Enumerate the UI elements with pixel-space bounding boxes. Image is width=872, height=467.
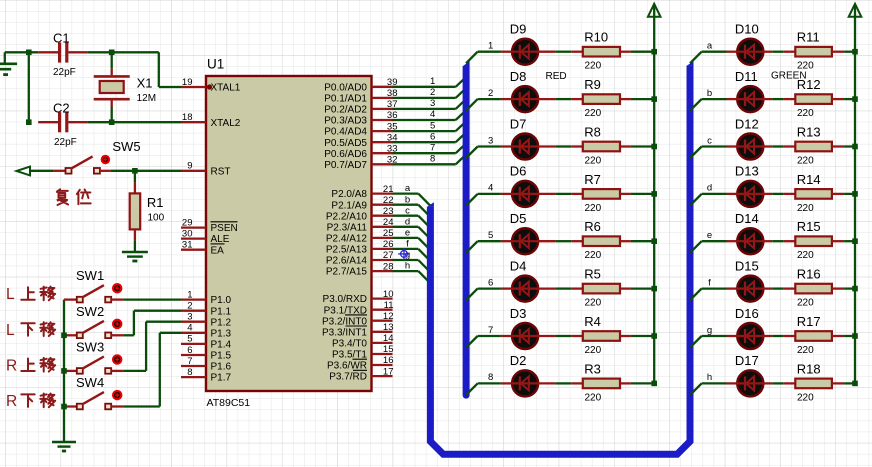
U1 pin stub 8 <box>181 376 206 378</box>
svg-text:3: 3 <box>430 98 435 109</box>
svg-text:D3: D3 <box>510 306 527 321</box>
wire C2 to XTAL2 pin <box>88 121 181 123</box>
svg-text:a: a <box>707 41 713 52</box>
svg-text:1: 1 <box>430 76 435 87</box>
svg-text:220: 220 <box>585 108 602 119</box>
wire P0.6 to bus <box>393 152 456 154</box>
power terminal VCC (green column) <box>849 4 862 17</box>
bus exit net 1 <box>466 52 478 64</box>
wire net 3 to LED <box>478 145 501 147</box>
svg-text:12M: 12M <box>137 93 156 104</box>
svg-text:h: h <box>405 261 410 272</box>
svg-text:e: e <box>405 228 410 239</box>
wire LED to resistor <box>772 51 783 53</box>
svg-text:R17: R17 <box>797 314 821 329</box>
svg-text:P0.4/AD4: P0.4/AD4 <box>324 127 367 138</box>
svg-text:5: 5 <box>187 334 192 345</box>
D5 cathode stub <box>501 240 512 242</box>
junction <box>651 144 657 150</box>
svg-text:220: 220 <box>585 298 602 309</box>
svg-text:220: 220 <box>585 392 602 403</box>
svg-text:R3: R3 <box>584 361 601 376</box>
bus entry P2.5 <box>418 249 430 261</box>
bus entry P2.4 <box>418 238 430 250</box>
svg-text:5: 5 <box>488 230 493 241</box>
bus exit net b <box>690 99 702 111</box>
R11 right stub <box>832 51 844 53</box>
svg-text:P2.1/A9: P2.1/A9 <box>331 200 367 211</box>
D3 cathode stub <box>501 335 512 337</box>
svg-text:D14: D14 <box>735 211 759 226</box>
bus entry P0.1 <box>456 88 466 98</box>
svg-text:P1.0: P1.0 <box>211 295 232 306</box>
ground (below R1) <box>122 251 148 253</box>
wire LED to resistor <box>772 98 783 100</box>
LED D15 <box>737 276 763 302</box>
RD overline <box>353 369 367 371</box>
D13 cathode stub <box>727 193 739 195</box>
junction <box>852 238 858 244</box>
wire crystal bottom <box>111 107 113 122</box>
D10 cathode stub <box>727 51 739 53</box>
D4 cathode stub <box>501 287 512 289</box>
svg-text:220: 220 <box>585 203 602 214</box>
svg-text:h: h <box>707 372 712 383</box>
resistor R9 <box>583 94 620 104</box>
svg-text:P3.7/RD: P3.7/RD <box>329 372 367 383</box>
wire P2.4 to bus <box>393 237 419 239</box>
wire LED to resistor <box>556 51 572 53</box>
LED D12 <box>737 134 763 160</box>
wire net f to LED <box>702 287 727 289</box>
U1 pin stub 5 <box>181 343 206 345</box>
D16 cathode stub <box>727 335 739 337</box>
svg-text:11: 11 <box>384 300 394 311</box>
wire LED to resistor <box>556 98 572 100</box>
wire net a to LED <box>702 51 727 53</box>
svg-text:R: R <box>6 357 17 374</box>
svg-text:7: 7 <box>187 356 192 367</box>
capacitor C2 <box>38 121 58 123</box>
wire resistor to VCC rail <box>844 145 855 147</box>
power terminal VCC (red column) <box>648 4 661 17</box>
bus exit net g <box>690 336 702 348</box>
R6 right stub <box>620 240 631 242</box>
svg-text:D10: D10 <box>735 22 759 37</box>
svg-text:L: L <box>6 322 15 339</box>
svg-text:30: 30 <box>182 228 193 239</box>
wire resistor to VCC rail <box>631 382 654 384</box>
LED D11 <box>737 86 763 112</box>
bus exit net a <box>690 52 702 64</box>
svg-text:g: g <box>707 325 712 336</box>
svg-text:27: 27 <box>383 250 394 261</box>
wire left rail down <box>28 52 30 122</box>
wire resistor to VCC rail <box>844 287 855 289</box>
svg-text:c: c <box>405 205 410 216</box>
svg-text:P1.3: P1.3 <box>211 328 232 339</box>
R7 left stub <box>571 193 583 195</box>
R10 left stub <box>571 51 583 53</box>
svg-text:18: 18 <box>182 112 193 123</box>
D4 anode stub <box>538 287 555 289</box>
R13 left stub <box>783 145 795 147</box>
svg-text:SW1: SW1 <box>76 268 104 283</box>
wire LED to resistor <box>772 382 783 384</box>
R14 left stub <box>783 193 795 195</box>
svg-text:XTAL2: XTAL2 <box>211 118 241 129</box>
wire P2.0 to bus <box>393 192 419 194</box>
svg-text:D7: D7 <box>510 116 527 131</box>
junction <box>651 333 657 339</box>
wire to XTAL1 pin <box>159 86 181 88</box>
svg-text:PSEN: PSEN <box>211 223 238 234</box>
R4 right stub <box>620 335 631 337</box>
INT1 overline <box>346 325 368 327</box>
wire P0.4 to bus <box>393 130 456 132</box>
svg-text:D13: D13 <box>735 164 759 179</box>
wire C1 to XTAL1 corner <box>88 51 159 53</box>
R8 right stub <box>620 145 631 147</box>
svg-text:GREEN: GREEN <box>771 71 807 82</box>
svg-text:220: 220 <box>585 250 602 261</box>
capacitor C1 <box>38 51 58 53</box>
svg-text:SW3: SW3 <box>76 339 104 354</box>
svg-text:24: 24 <box>383 217 394 228</box>
resistor R3 <box>583 379 620 389</box>
bus P0 (vertical, red LED column) <box>463 61 470 398</box>
wire net g to LED <box>702 335 727 337</box>
svg-text:100: 100 <box>148 213 165 224</box>
svg-text:D9: D9 <box>510 22 527 37</box>
switch SW5 <box>53 170 66 172</box>
U1 pin stub 13 <box>372 331 393 333</box>
svg-text:P0.2/AD2: P0.2/AD2 <box>324 105 367 116</box>
D12 cathode stub <box>727 145 739 147</box>
bus exit net 2 <box>466 99 478 111</box>
D16 anode stub <box>764 335 773 337</box>
svg-text:29: 29 <box>182 217 193 228</box>
svg-text:U1: U1 <box>207 57 224 72</box>
svg-text:RST: RST <box>211 166 231 177</box>
wire SW3 to P1.2 <box>124 370 147 372</box>
svg-text:R: R <box>6 393 17 410</box>
svg-text:2: 2 <box>430 87 435 98</box>
VCC rail (green column) <box>854 5 856 383</box>
svg-text:R14: R14 <box>797 172 821 187</box>
resistor R4 <box>583 331 620 341</box>
junction <box>651 49 657 55</box>
svg-text:4: 4 <box>488 183 493 194</box>
wire XTAL1 vertical <box>158 52 160 87</box>
wire P2.7 to bus <box>393 270 419 272</box>
svg-text:14: 14 <box>383 333 394 344</box>
svg-text:R1: R1 <box>147 195 164 210</box>
resistor R1 <box>134 182 136 193</box>
bus exit net 5 <box>466 241 478 253</box>
svg-text:7: 7 <box>430 142 435 153</box>
bus entry P0.6 <box>456 144 466 154</box>
svg-text:7: 7 <box>488 325 493 336</box>
wire P2.2 to bus <box>393 215 419 217</box>
svg-text:8: 8 <box>488 372 493 383</box>
R9 left stub <box>571 98 583 100</box>
svg-text:R7: R7 <box>584 172 601 187</box>
bus exit net 7 <box>466 336 478 348</box>
wire net c to LED <box>702 145 727 147</box>
label 复位 <box>57 189 68 205</box>
svg-text:d: d <box>707 183 712 194</box>
svg-text:P3.4/T0: P3.4/T0 <box>332 339 367 350</box>
svg-text:SW5: SW5 <box>112 139 140 154</box>
svg-text:P1.1: P1.1 <box>211 306 232 317</box>
U1 pin stub 4 <box>181 332 206 334</box>
resistor R12 <box>795 94 832 104</box>
U1 pin stub 11 <box>372 309 393 311</box>
svg-text:P2.3/A11: P2.3/A11 <box>327 222 368 233</box>
wire P2.6 to bus <box>393 259 419 261</box>
svg-text:3: 3 <box>187 312 192 323</box>
svg-text:P0.0/AD0: P0.0/AD0 <box>324 82 367 93</box>
U1 pin stub 33 <box>372 152 393 154</box>
R6 left stub <box>571 240 583 242</box>
LED D3 <box>512 323 538 349</box>
D2 anode stub <box>538 382 555 384</box>
LED D8 <box>512 86 538 112</box>
PSEN overline <box>211 221 238 223</box>
wire LED to resistor <box>772 287 783 289</box>
R12 left stub <box>783 98 795 100</box>
svg-text:220: 220 <box>585 156 602 167</box>
U1 pin stub 18 <box>181 121 206 123</box>
junction <box>852 144 858 150</box>
resistor R17 <box>795 331 832 341</box>
junction <box>61 333 67 339</box>
wire net h to LED <box>702 382 727 384</box>
svg-text:P2.6/A14: P2.6/A14 <box>326 256 368 267</box>
svg-text:15: 15 <box>383 344 394 355</box>
wire net d to LED <box>702 193 727 195</box>
wire resistor to VCC rail <box>631 98 654 100</box>
svg-text:f: f <box>708 277 711 288</box>
D8 cathode stub <box>501 98 512 100</box>
svg-text:P1.4: P1.4 <box>211 340 232 351</box>
D2 cathode stub <box>501 382 512 384</box>
svg-text:31: 31 <box>182 240 193 251</box>
EA overline <box>211 243 225 245</box>
svg-text:P1.7: P1.7 <box>211 373 232 384</box>
junction <box>651 381 657 387</box>
wire crystal top <box>111 52 113 69</box>
INT0 overline <box>345 314 367 316</box>
svg-text:C1: C1 <box>53 31 70 46</box>
svg-text:R6: R6 <box>584 219 601 234</box>
R12 right stub <box>832 98 844 100</box>
svg-text:22pF: 22pF <box>54 137 77 148</box>
resistor R13 <box>795 142 832 152</box>
U1 pin stub 36 <box>372 119 393 121</box>
wire LED to resistor <box>556 240 572 242</box>
svg-text:RED: RED <box>546 71 567 82</box>
svg-text:D6: D6 <box>510 164 527 179</box>
bus entry P0.3 <box>456 110 466 120</box>
wire net 5 to LED <box>478 240 501 242</box>
bus entry P2.3 <box>418 227 430 239</box>
switch SW1 <box>64 298 77 300</box>
R3 right stub <box>620 382 631 384</box>
svg-text:D11: D11 <box>735 69 758 84</box>
wire LED to resistor <box>772 145 783 147</box>
svg-text:220: 220 <box>797 156 814 167</box>
svg-text:R15: R15 <box>797 219 821 234</box>
svg-text:2: 2 <box>488 88 493 99</box>
wire P0.2 to bus <box>393 108 456 110</box>
svg-text:SW4: SW4 <box>76 375 104 390</box>
wire net 8 to LED <box>478 382 501 384</box>
U1 pin stub 10 <box>372 297 393 299</box>
svg-text:5: 5 <box>430 120 435 131</box>
bus entry P2.7 <box>418 271 430 283</box>
U1 pin stub 14 <box>372 342 393 344</box>
U1 pin stub 26 <box>372 248 393 250</box>
svg-text:L: L <box>6 286 15 303</box>
svg-text:6: 6 <box>488 277 493 288</box>
svg-text:1: 1 <box>488 41 493 52</box>
D5 anode stub <box>538 240 555 242</box>
svg-text:P3.3/INT1: P3.3/INT1 <box>322 327 367 338</box>
U1 pin stub 2 <box>181 310 206 312</box>
svg-text:220: 220 <box>585 345 602 356</box>
junction <box>651 238 657 244</box>
D7 anode stub <box>538 145 555 147</box>
wire resistor to VCC rail <box>631 193 654 195</box>
junction node <box>26 50 32 56</box>
svg-text:D17: D17 <box>735 353 759 368</box>
svg-text:b: b <box>405 194 410 205</box>
U1 pin stub 12 <box>372 320 393 322</box>
svg-text:P0.3/AD3: P0.3/AD3 <box>324 116 367 127</box>
wire resistor to VCC rail <box>844 193 855 195</box>
svg-text:26: 26 <box>383 239 394 250</box>
wire P2.5 to bus <box>393 248 419 250</box>
svg-text:P1.6: P1.6 <box>211 362 232 373</box>
D15 cathode stub <box>727 287 739 289</box>
resistor R6 <box>583 236 620 246</box>
svg-text:P2.5/A13: P2.5/A13 <box>326 245 368 256</box>
junction <box>852 49 858 55</box>
junction <box>651 286 657 292</box>
D12 anode stub <box>764 145 773 147</box>
R17 right stub <box>832 335 844 337</box>
R14 right stub <box>832 193 844 195</box>
U1 pin stub 16 <box>372 364 393 366</box>
wire LED to resistor <box>772 240 783 242</box>
wire LED to resistor <box>772 335 783 337</box>
svg-text:16: 16 <box>383 355 394 366</box>
svg-text:P0.5/AD5: P0.5/AD5 <box>324 138 367 149</box>
svg-text:D4: D4 <box>510 258 527 273</box>
svg-text:R5: R5 <box>584 267 601 282</box>
wire SW4 to P1.3 <box>124 405 160 407</box>
wire LED to resistor <box>556 145 572 147</box>
svg-text:P0.7/AD7: P0.7/AD7 <box>324 160 367 171</box>
U1 pin stub 21 <box>372 192 393 194</box>
U1 pin stub 7 <box>181 365 206 367</box>
svg-text:8: 8 <box>187 367 192 378</box>
svg-text:21: 21 <box>383 184 394 195</box>
U1 pin stub 24 <box>372 226 393 228</box>
LED D10 <box>737 39 763 65</box>
junction <box>852 381 858 387</box>
bus entry P0.5 <box>456 133 466 143</box>
svg-text:f: f <box>406 239 409 250</box>
sheet origin marker <box>401 251 408 258</box>
svg-text:SW2: SW2 <box>76 304 104 319</box>
svg-text:17: 17 <box>383 366 394 377</box>
svg-text:4: 4 <box>187 323 192 334</box>
wire resistor to VCC rail <box>631 335 654 337</box>
ground (top left) <box>4 52 6 63</box>
LED D9 <box>512 39 538 65</box>
resistor R7 <box>583 189 620 199</box>
U1 pin stub 29 <box>181 226 206 228</box>
svg-text:P2.4/A12: P2.4/A12 <box>326 234 368 245</box>
svg-text:P2.0/A8: P2.0/A8 <box>331 189 367 200</box>
svg-text:XTAL1: XTAL1 <box>211 83 241 94</box>
svg-text:P2.2/A10: P2.2/A10 <box>326 211 368 222</box>
svg-text:6: 6 <box>187 345 192 356</box>
R11 left stub <box>783 51 795 53</box>
wire net 7 to LED <box>478 335 501 337</box>
svg-text:P3.0/RXD: P3.0/RXD <box>323 294 367 305</box>
junction node <box>109 119 115 125</box>
svg-text:R16: R16 <box>797 267 821 282</box>
bus exit net 3 <box>466 147 478 159</box>
U1 pin stub 23 <box>372 215 393 217</box>
svg-text:220: 220 <box>797 298 814 309</box>
D10 anode stub <box>764 51 773 53</box>
junction <box>852 191 858 197</box>
svg-text:P0.6/AD6: P0.6/AD6 <box>324 149 367 160</box>
resistor R14 <box>795 189 832 199</box>
svg-text:2: 2 <box>187 301 192 312</box>
resistor R16 <box>795 284 832 294</box>
bus entry P2.6 <box>418 260 430 272</box>
svg-text:220: 220 <box>797 108 814 119</box>
wire P2.1 to bus <box>393 204 419 206</box>
switch SW3 <box>64 370 77 372</box>
U1 pin stub 3 <box>181 321 206 323</box>
R7 right stub <box>620 193 631 195</box>
wire resistor to VCC rail <box>844 51 855 53</box>
D9 anode stub <box>538 51 555 53</box>
wire R1 to ground <box>134 240 136 251</box>
D8 anode stub <box>538 98 555 100</box>
wire P0.5 to bus <box>393 141 456 143</box>
R9 right stub <box>620 98 631 100</box>
svg-text:220: 220 <box>797 250 814 261</box>
wire resistor to VCC rail <box>844 382 855 384</box>
svg-text:220: 220 <box>585 61 602 72</box>
svg-text:D5: D5 <box>510 211 527 226</box>
svg-text:C2: C2 <box>53 101 70 116</box>
LED D7 <box>512 134 538 160</box>
U1 pin stub 37 <box>372 108 393 110</box>
resistor R10 <box>583 47 620 57</box>
wire resistor to VCC rail <box>631 145 654 147</box>
R17 left stub <box>783 335 795 337</box>
wire P2.3 to bus <box>393 226 419 228</box>
